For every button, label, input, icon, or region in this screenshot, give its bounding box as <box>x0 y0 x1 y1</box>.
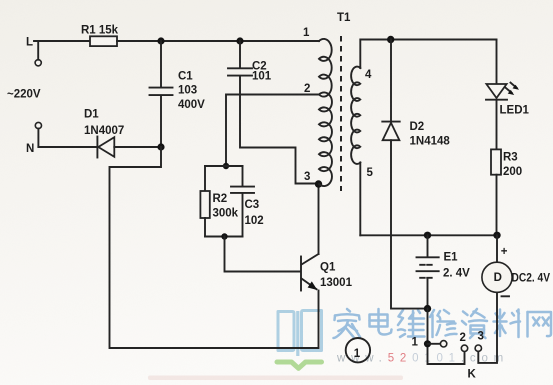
transformer T1 secondary winding <box>351 67 360 164</box>
capacitor C2 <box>228 41 272 83</box>
resistor R1 <box>81 25 119 47</box>
node tap3 <box>315 180 322 187</box>
watermark character xiu <box>430 310 457 337</box>
capacitor C3 <box>231 166 264 237</box>
wire battery bottom to switch <box>428 309 465 364</box>
diode D2 1N4148 <box>382 40 450 148</box>
watermark book green base <box>277 362 322 368</box>
wire stub to contact 1 <box>428 343 441 345</box>
node secondary top <box>387 36 394 43</box>
switch K contact 3 <box>475 331 484 352</box>
terminal L <box>26 37 41 66</box>
wire R3 to rail <box>496 175 498 236</box>
node R2C3 top <box>223 163 229 169</box>
watermark character liao <box>494 310 521 338</box>
wire motor to contact 3 <box>478 292 497 363</box>
wire C2 to tap3 <box>240 77 315 184</box>
LED1 <box>486 40 530 117</box>
node E1 top <box>424 232 431 239</box>
switch K contact 2 <box>460 332 468 351</box>
wire LED to R3 <box>496 100 498 150</box>
wire R2C3 bottom rail <box>205 236 243 238</box>
watermark character jia <box>334 309 361 338</box>
wire N to D1 <box>38 146 97 148</box>
transistor Q1 13001 <box>301 254 353 291</box>
watermark placeholder <box>277 309 551 368</box>
wire lower rail <box>360 234 497 236</box>
wire L to R1 <box>34 40 90 42</box>
watermark book icon <box>278 311 322 357</box>
resistor R3 <box>491 149 522 178</box>
diode D1 1N4007 <box>84 109 124 158</box>
battery E1 2.4V <box>417 235 471 308</box>
resistor R2 <box>200 166 238 237</box>
motor DC2.4V <box>482 235 550 296</box>
node C2 junction <box>236 37 243 44</box>
watermark character wang <box>528 312 552 337</box>
switch K contact 1 <box>412 337 447 349</box>
node battery bottom / D2 junction <box>424 305 431 312</box>
terminal N <box>26 122 42 155</box>
wire emitter down <box>318 291 320 349</box>
figure number 1 <box>346 338 370 362</box>
node C1 junction <box>157 37 164 44</box>
node contact 1 feed <box>424 340 431 347</box>
watermark character wei <box>398 310 425 337</box>
transformer T1 primary winding <box>319 39 332 186</box>
wire tap5 down <box>359 163 361 236</box>
wire collector to tap3 <box>318 184 320 254</box>
wire R2C3 top rail <box>205 165 243 167</box>
wire base <box>225 237 301 272</box>
wire R1 to transformer tap1 <box>117 40 319 42</box>
watermark character zi <box>462 309 487 338</box>
capacitor C1 <box>150 41 206 147</box>
node R2C3 bottom <box>221 233 227 239</box>
wire secondary top rail <box>360 40 496 69</box>
wire tap2 to R2C3 <box>226 95 319 167</box>
transformer core dashed line <box>340 36 342 191</box>
wire D1 to node <box>114 146 161 148</box>
wire left loop to emitter rail <box>110 147 319 348</box>
faint bottom watermark smear <box>148 376 403 381</box>
node D1/C1 junction <box>157 143 164 150</box>
node motor top <box>493 232 500 239</box>
wire D2 anode down <box>391 140 428 308</box>
watermark character dian <box>370 309 392 335</box>
